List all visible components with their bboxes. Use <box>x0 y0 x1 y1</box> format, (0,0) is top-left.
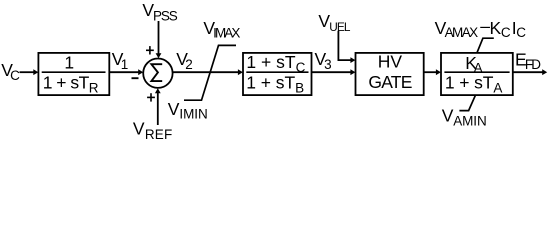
arrowhead into block1 <box>33 69 38 75</box>
svg-text:1 + sTA: 1 + sTA <box>445 73 503 96</box>
svg-text:1: 1 <box>64 53 74 73</box>
wire input VC <box>20 71 35 73</box>
wire block2 to HV gate <box>312 71 352 73</box>
arrowhead into summer <box>138 69 143 75</box>
svg-text:VIMIN: VIMIN <box>168 99 208 122</box>
block KA fraction bar <box>444 71 509 73</box>
arrowhead into block4 <box>436 69 441 75</box>
wire VUEL elbow <box>338 31 351 60</box>
minus sign <box>132 77 139 79</box>
wire summer to block2 <box>173 71 239 73</box>
plus sign bottom <box>147 96 155 98</box>
svg-text:V1: V1 <box>112 49 129 72</box>
block HV gate <box>356 53 424 95</box>
svg-text:1 + sTR: 1 + sTR <box>43 73 99 96</box>
wire VREF up <box>157 92 159 125</box>
svg-text:VC: VC <box>1 60 20 83</box>
svg-text:1 + sTC: 1 + sTC <box>246 52 305 75</box>
block TC TB <box>243 53 312 95</box>
svg-text:V2: V2 <box>176 49 193 72</box>
svg-text:V3: V3 <box>315 49 332 72</box>
arrowhead VUEL into HV gate <box>350 57 355 63</box>
svg-text:1 + sTB: 1 + sTB <box>246 73 304 96</box>
block TR <box>38 53 109 95</box>
summer circle <box>143 58 172 87</box>
svg-text:VAMAX: VAMAX <box>435 18 479 40</box>
svg-text:EFD: EFD <box>515 49 541 72</box>
svg-text:VAMIN: VAMIN <box>442 105 487 128</box>
summer sigma <box>151 64 162 81</box>
wire HV gate to block4 <box>424 71 437 73</box>
limiter symbol VIMAX VIMIN <box>184 45 236 100</box>
limit mark VAMIN <box>459 95 475 110</box>
arrowhead VREF up <box>155 88 161 93</box>
arrowhead into HV gate <box>350 69 355 75</box>
block TR fraction bar <box>42 71 106 73</box>
svg-text:VPSS: VPSS <box>142 0 177 23</box>
limit mark VAMAX <box>477 38 494 53</box>
wire VPSS down <box>158 21 160 54</box>
svg-text:VUEL: VUEL <box>318 11 350 34</box>
arrowhead into block2 <box>238 69 243 75</box>
plus sign top <box>146 49 154 51</box>
svg-text:VIMAX: VIMAX <box>203 18 240 40</box>
svg-text:GATE: GATE <box>368 72 412 92</box>
block KA <box>441 53 513 95</box>
svg-text:VREF: VREF <box>133 119 172 142</box>
arrowhead VPSS down <box>156 53 162 58</box>
wire block1 to summer <box>109 71 139 73</box>
block TC TB fraction bar <box>246 71 308 73</box>
svg-text:–KCIC: –KCIC <box>480 16 526 40</box>
wire output EFD <box>513 71 544 73</box>
svg-text:HV: HV <box>378 52 403 72</box>
arrowhead output <box>542 69 547 75</box>
